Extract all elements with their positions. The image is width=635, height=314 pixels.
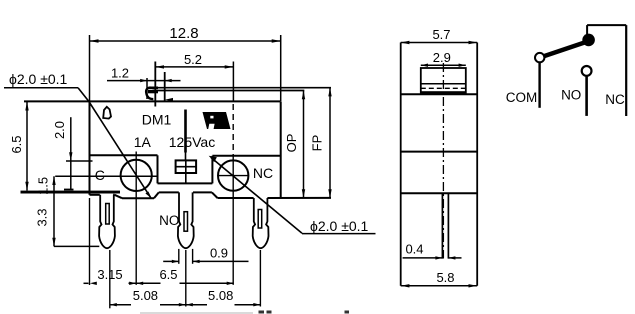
OP / FP dimension lines	[303, 91, 305, 198]
left dim 1.5/3.3 vertical	[53, 176, 55, 246]
svg-text:FP: FP	[310, 135, 325, 152]
arrow on body top	[165, 98, 173, 102]
body outline	[89, 101, 91, 194]
center bar	[184, 110, 187, 153]
svg-text:1.2: 1.2	[111, 66, 129, 81]
NO contact circle	[582, 66, 592, 76]
svg-text:C: C	[95, 167, 105, 183]
svg-text:6.5: 6.5	[9, 135, 24, 153]
terminal centerlines down to dims	[109, 250, 111, 308]
body top line with left extension	[24, 100, 281, 102]
svg-text:125Vac: 125Vac	[169, 134, 215, 150]
1.2 extension line (lever tip)	[146, 78, 148, 99]
COM pivot circle	[535, 53, 544, 62]
thick mounting line	[21, 191, 121, 194]
svg-text:2.9: 2.9	[433, 50, 451, 65]
body lines	[401, 93, 478, 95]
svg-text:5.08: 5.08	[133, 288, 158, 303]
svg-text:NC: NC	[605, 92, 625, 107]
svg-text:3.3: 3.3	[35, 208, 50, 226]
svg-text:OP: OP	[284, 134, 299, 153]
dot stem	[586, 25, 588, 36]
left dim 6.5 vertical	[26, 102, 28, 191]
lever curl	[149, 87, 158, 90]
svg-text:5.8: 5.8	[436, 270, 454, 285]
dim row 3.15 / 6.5	[84, 282, 89, 284]
top wire	[587, 24, 626, 26]
caption remnants at bottom edge	[259, 311, 265, 314]
svg-text:5.08: 5.08	[208, 288, 233, 303]
svg-text:COM: COM	[506, 90, 538, 105]
terminal NC	[253, 198, 269, 248]
svg-text:12.8: 12.8	[169, 25, 198, 42]
svg-text:1A: 1A	[134, 134, 152, 150]
extension lines left	[66, 160, 93, 162]
svg-text:ϕ2.0 ±0.1: ϕ2.0 ±0.1	[310, 218, 369, 234]
terminal C	[99, 195, 115, 248]
leader to left hole	[78, 88, 151, 198]
COM wire	[538, 62, 540, 108]
centerline	[442, 63, 444, 259]
dimension 5.2	[155, 62, 233, 107]
svg-text:NC: NC	[253, 165, 273, 181]
svg-text:5.7: 5.7	[432, 27, 450, 42]
center lines	[135, 152, 137, 285]
recess outline	[90, 154, 158, 156]
left dim 2.0 vertical	[70, 117, 72, 190]
NC contact dot	[582, 34, 595, 47]
svg-text:NO: NO	[159, 213, 179, 228]
grid box	[176, 160, 197, 173]
dimension 12.8 top	[90, 35, 281, 101]
dimension 1.2	[107, 80, 181, 82]
lever	[543, 42, 586, 57]
svg-text:0.4: 0.4	[405, 242, 423, 257]
svg-text:ϕ2.0 ±0.1: ϕ2.0 ±0.1	[9, 71, 68, 87]
pentagon vent	[103, 107, 111, 119]
dim 2.9	[421, 64, 466, 66]
dim 5.7	[401, 42, 478, 44]
logo	[203, 112, 231, 129]
NC wire	[625, 25, 627, 116]
dim 5.8	[401, 285, 478, 287]
dim 0.4	[403, 257, 443, 259]
leader 2 to right hole	[209, 156, 217, 162]
dim 0.9	[178, 249, 180, 264]
svg-text:DM1: DM1	[142, 112, 172, 128]
svg-text:NO: NO	[561, 87, 581, 102]
side body edges	[400, 43, 402, 286]
svg-text:6.5: 6.5	[159, 267, 177, 282]
svg-text:2.0: 2.0	[52, 121, 67, 139]
svg-text:0.9: 0.9	[210, 246, 228, 261]
plunger sides	[154, 62, 156, 107]
dim row 5.08 / 5.08	[110, 304, 131, 306]
lever lines	[152, 87, 332, 89]
bottom outline	[90, 194, 100, 196]
NO wire	[585, 76, 588, 116]
svg-text:5.2: 5.2	[184, 52, 202, 67]
circles	[121, 160, 152, 191]
button	[421, 68, 466, 94]
terminal NO	[178, 192, 194, 248]
svg-text:3.15: 3.15	[97, 267, 122, 282]
pin	[441, 193, 443, 258]
